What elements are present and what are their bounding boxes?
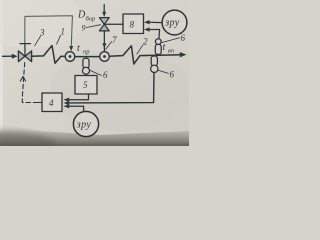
block 5	[75, 76, 97, 95]
svg-text:8: 8	[130, 20, 135, 30]
svg-text:1: 1	[61, 27, 66, 37]
thermocouple 6 below pipe (feedback sensor)	[151, 56, 157, 66]
valve 3 (gate valve bowtie)	[18, 51, 31, 62]
wire: block 5 to regulator 4	[69, 94, 89, 100]
svg-text:зру: зру	[76, 119, 92, 130]
label 3 leader	[35, 36, 41, 46]
wire: feedback from lower sensor to regulator 4	[69, 73, 155, 103]
wire: injection drop line into nozzle 2	[103, 31, 105, 51]
wire: ZRU to controller 8	[149, 21, 163, 23]
svg-text:9: 9	[82, 24, 86, 33]
label 6 top-right leader	[162, 38, 180, 43]
svg-text:зру: зру	[164, 18, 180, 29]
wire: sensor into block 5	[85, 74, 87, 77]
wire: pipe between nozzles	[75, 56, 100, 58]
node: injection nozzle 2 (circle with dot)	[100, 52, 110, 62]
wire: inlet arrow into valve 3	[3, 55, 13, 57]
svg-text:2: 2	[143, 37, 148, 47]
label D_bor	[39, 10, 186, 131]
svg-text:вп: вп	[168, 48, 174, 55]
controller box 8	[123, 14, 144, 34]
label 7 leader	[106, 42, 112, 50]
label 2 leader	[137, 45, 143, 54]
valve 9 (vertical bowtie on injection line)	[99, 18, 109, 31]
wire: thermocouple t_vp to controller 8	[149, 30, 160, 39]
valve 3 stem	[24, 44, 26, 56]
svg-text:пр: пр	[83, 49, 90, 56]
label 9 leader	[87, 25, 101, 28]
wire: main steam pipe left section with break symbol	[32, 46, 66, 64]
svg-text:t: t	[77, 43, 80, 54]
device ZRU top circle	[162, 10, 187, 35]
wire: D-bor supply arrow down into valve 9	[103, 5, 105, 13]
svg-text:5: 5	[83, 80, 88, 90]
svg-text:6: 6	[103, 70, 108, 80]
label 6 right leader	[158, 70, 168, 73]
paper background	[0, 0, 189, 146]
bottom scan shadow band	[0, 124, 189, 146]
wire: valve 9 to controller 8	[104, 23, 123, 25]
wire: bottom ZRU to regulator 4	[69, 106, 84, 111]
valve 3 handle T-bar	[20, 43, 31, 45]
wire: main steam pipe right section with break symbol and outlet arrow	[109, 46, 181, 64]
thermocouple 6 above pipe (t_vp sensor)	[155, 39, 161, 45]
svg-text:6: 6	[170, 70, 175, 80]
svg-text:4: 4	[49, 98, 54, 108]
wire: top-left control loop from valve 3 to nozzle 1	[25, 16, 73, 47]
svg-text:бор: бор	[86, 16, 96, 23]
svg-text:7: 7	[112, 35, 117, 45]
svg-text:3: 3	[39, 28, 45, 38]
arrowhead down into nozzle 1	[69, 46, 73, 51]
svg-text:6: 6	[181, 33, 186, 43]
wire: dashed command line valve 3 to regulator 4	[22, 63, 35, 103]
svg-text:t: t	[163, 42, 166, 53]
regulator box 4	[42, 93, 62, 112]
label 1 leader	[57, 35, 61, 44]
device ZRU bottom circle	[73, 111, 98, 136]
label 6 middle leader	[90, 70, 102, 75]
node: injection nozzle 1 (circle with dot)	[65, 52, 75, 62]
thermocouple 6 at t_pr point	[83, 58, 89, 68]
